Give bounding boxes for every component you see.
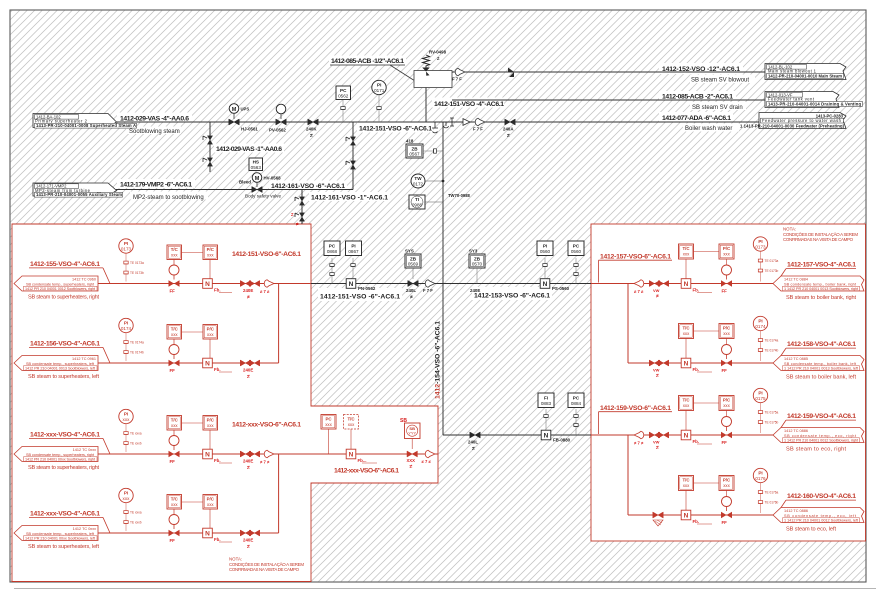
svg-text:T/C: T/C [682,398,690,403]
pipe label 1412-xxx-VSO-4&quot;-AC6.1 [28,511,110,551]
svg-text:TE 0175b: TE 0175b [765,421,779,425]
banner destination R1 [773,276,864,291]
isolation valve pair R1 [649,281,668,300]
svg-text:0884: 0884 [571,401,582,406]
svg-text:1412-151-VSO -4"-AC6.1: 1412-151-VSO -4"-AC6.1 [434,101,504,108]
svg-text:Bleed: Bleed [239,180,251,185]
svg-text:VW: VW [653,368,660,373]
svg-text:≠: ≠ [410,295,413,301]
svg-text:1 1412 PR 210 04001 0013 Sootb: 1 1412 PR 210 04001 0013 Sootblowers, le… [784,367,859,371]
inline flag valve on blowout line [508,68,514,78]
svg-text:TE 0176b: TE 0176b [765,501,779,505]
svg-text:PS-0560: PS-0560 [552,286,570,291]
svg-text:Fb.: Fb. [214,367,221,372]
pipe label 1412-xxx-VSO-4&quot;-AC6.1 [28,432,110,472]
svg-text:≠: ≠ [656,373,659,379]
svg-text:SB steam to superheaters, left: SB steam to superheaters, left [28,544,99,550]
banner source L1 [14,276,98,291]
svg-text:1412-160-VSO-4"-AC6.1: 1412-160-VSO-4"-AC6.1 [787,493,856,500]
svg-text:NOTA:: NOTA: [783,227,796,232]
wire: pipe line L1 [98,283,311,285]
svg-text:1412 TC 0xxx: 1412 TC 0xxx [73,527,96,531]
svg-text:PI: PI [543,243,547,248]
svg-text:xxx: xxx [683,331,690,336]
wire: VSO-1 branch at x302 [301,190,303,225]
isolation double valve L1 [240,281,259,301]
pipe label 1412-157-VSO-6&quot;-AC6.1 [599,253,673,282]
svg-text:0172: 0172 [413,181,424,186]
svg-text:P/C: P/C [207,418,215,423]
wire: pipe line L2 [98,362,279,364]
gate valve 240L on header [406,281,418,301]
motor valve HV-0568 [239,173,281,199]
instrument T/C xxx [167,495,182,510]
svg-text:Feedwater pressure to water wa: Feedwater pressure to water wash [762,118,842,123]
svg-text:T/C: T/C [347,417,355,422]
svg-text:xxx: xxx [683,252,690,257]
control valve FF L3 [169,430,180,464]
svg-text:SY3: SY3 [469,249,478,254]
control valve FF R1 [721,265,732,294]
banner destination R4 [773,508,864,523]
svg-text:FF: FF [170,459,176,464]
svg-text:TE 0176a: TE 0176a [765,491,779,495]
end banner 1412-BL-102 Main Steam [765,64,846,80]
svg-text:F 7 F: F 7 F [452,77,462,82]
svg-text:≠ 7 ≠: ≠ 7 ≠ [634,289,644,294]
svg-text:xxx: xxx [207,423,214,428]
svg-text:F 7 F: F 7 F [423,288,433,293]
svg-text:P/C: P/C [207,247,215,252]
svg-text:SB condensate temp., superheat: SB condensate temp., superheaters, right [26,282,95,286]
wire: pipe line R4 [628,514,775,516]
svg-text:SB condensate temp., eco, left: SB condensate temp., eco, left [784,514,857,518]
svg-text:Fb.: Fb. [693,519,700,524]
control valve FF L4 [169,509,180,543]
svg-text:xxx: xxx [683,403,690,408]
svg-text:1412 PR 210 04001 0012 Sootblo: 1412 PR 210 04001 0012 Sootblowers, righ… [25,287,96,291]
svg-text:CONFIRMADAS NA VISITA DE CAMPO: CONFIRMADAS NA VISITA DE CAMPO [229,567,300,572]
instrument PI-0560 [537,241,553,278]
svg-text:1412-179-VMP2 -6"-AC6.1: 1412-179-VMP2 -6"-AC6.1 [120,182,192,189]
branch gate valves VSO-1 [291,197,305,227]
svg-text:0173: 0173 [755,245,766,250]
inline N box L2 [203,358,232,372]
svg-text:PC: PC [573,395,580,400]
svg-text:PI: PI [758,471,762,476]
svg-text:0868: 0868 [327,249,338,254]
svg-text:PC: PC [329,243,336,248]
instrument P/C xxx [182,416,218,450]
svg-text:1412 TC 0886: 1412 TC 0886 [784,429,808,433]
instrument PI 0173 [119,239,144,282]
instrument PI 0174 [119,318,144,361]
svg-text:≠ 7 ≠: ≠ 7 ≠ [422,459,432,464]
instrument T/C xxx [167,416,182,431]
source banner 1412-BA-102 [33,114,137,129]
svg-text:T/C: T/C [171,497,179,502]
svg-text:0567: 0567 [409,152,420,157]
svg-text:≠: ≠ [247,374,250,380]
svg-text:Boiler wash water: Boiler wash water [685,126,732,132]
svg-text:1412-xxx-VSO-4"-AC6.1: 1412-xxx-VSO-4"-AC6.1 [30,511,100,518]
svg-text:FF: FF [722,289,728,294]
instrument PI 0173 R1 [753,237,778,282]
svg-text:xxx: xxx [171,423,178,428]
pipe label 1412-156-VSO-4&quot;-AC6.1 [28,341,110,381]
label background patches (white) [117,56,755,302]
svg-text:1412-157-VSO-6"-AC6.1: 1412-157-VSO-6"-AC6.1 [600,253,671,260]
svg-text:P/C: P/C [207,327,215,332]
svg-text:TE 0174b: TE 0174b [765,349,779,353]
svg-text:TE 0173b: TE 0173b [765,269,779,273]
control valve FF L2 [169,339,180,373]
control valve FF L1 [169,260,180,294]
svg-text:240K: 240K [306,126,317,131]
svg-text:PI: PI [124,412,128,417]
pipe label 1412-157-VSO-4&quot;-AC6.1 [776,262,856,284]
svg-text:0174: 0174 [755,324,766,329]
instrument P/C R4 [694,476,735,498]
svg-text:1412 PR 210 04001 0013 Sootblo: 1412 PR 210 04001 0013 Sootblowers, left [25,367,96,371]
svg-text:MP2-steam to sootblowing: MP2-steam to sootblowing [133,195,204,201]
svg-text:YYY: YYY [408,430,416,435]
relief valve body [422,68,430,76]
instrument PI-0171 [372,80,386,122]
svg-text:1412-161-VSO -6"-AC6.1: 1412-161-VSO -6"-AC6.1 [271,183,345,190]
svg-text:PV-0562: PV-0562 [269,127,286,132]
isolation double valve L3 [240,451,259,471]
svg-text:0176: 0176 [755,476,766,481]
svg-text:≠ 7 ≠: ≠ 7 ≠ [634,441,644,446]
svg-text:SB condensate temp., boiler ba: SB condensate temp., boiler bank, right [784,282,857,286]
isolation double valve L2 [240,360,259,380]
relief valve RV spring [423,55,430,70]
svg-text:Fb.: Fb. [693,367,700,372]
flange arrow L1 [264,280,274,288]
svg-text:TE 0174b: TE 0174b [130,351,144,355]
svg-text:PN-0562: PN-0562 [358,286,376,291]
instrument T/C R1 [679,244,694,279]
svg-text:FF: FF [722,520,728,525]
svg-text:SYS: SYS [405,249,414,254]
instrument HS-0563 [249,158,263,171]
band inline N box [346,449,377,463]
svg-text:SB condensate temp., boiler ba: SB condensate temp., boiler bank, left [784,362,857,366]
svg-text:xxx: xxx [123,417,131,422]
instrument PI-0867 [346,241,362,278]
svg-text:T/C: T/C [171,247,179,252]
branch gate valve pair VAS-1 [203,136,213,166]
svg-text:0173: 0173 [121,247,132,252]
svg-text:xxx: xxx [171,502,178,507]
instrument PI 0176 R4 [753,468,778,513]
instrument TI-0988 [409,195,443,209]
svg-text:1412-xxx-VSO-6"-AC6.1: 1412-xxx-VSO-6"-AC6.1 [232,422,301,429]
svg-text:240L: 240L [406,288,416,293]
svg-text:SB steam to superheaters, righ: SB steam to superheaters, right [28,295,99,301]
svg-text:xxx: xxx [171,252,178,257]
svg-text:240A: 240A [503,126,514,131]
band SB valve [407,451,418,470]
svg-text:PC: PC [573,243,580,248]
svg-text:VW: VW [653,288,660,293]
svg-text:T/C: T/C [682,246,690,251]
instrument FI-0883 [538,393,554,430]
svg-text:RV-0498: RV-0498 [429,50,447,55]
svg-text:HV-0568: HV-0568 [264,176,282,181]
svg-text:0560: 0560 [571,249,582,254]
svg-text:≠: ≠ [472,446,475,452]
svg-text:1 1412 PR 210 04001 0012 Sootb: 1 1412 PR 210 04001 0012 Sootblowers, ri… [784,439,859,443]
svg-text:1412-085-ACB -2"-AC6.1: 1412-085-ACB -2"-AC6.1 [662,93,733,100]
svg-text:PI: PI [758,319,762,324]
instrument P/C R2 [694,324,735,346]
svg-text:1412-xxx-VSO-4"-AC6.1: 1412-xxx-VSO-4"-AC6.1 [30,432,100,439]
svg-text:xxx: xxx [723,483,730,488]
instrument PI 0175 R3 [753,388,778,433]
svg-text:T/C: T/C [682,326,690,331]
wire: VAS-1 branch at x210 [209,122,211,172]
svg-text:PC: PC [325,417,332,422]
wire: 1412-154 vertical main riser [442,122,444,435]
svg-text:1412 TC 0xxx: 1412 TC 0xxx [73,448,96,452]
svg-text:xxx: xxx [171,332,178,337]
svg-text:M: M [255,176,260,182]
instrument P/C R1 [694,244,735,266]
banner destination R3 [773,428,864,443]
svg-text:PI: PI [124,321,128,326]
steam trap at x435 [432,122,438,133]
svg-text:SB condensate temp., superheat: SB condensate temp., superheaters, left [26,362,95,366]
instrument P/C xxx [182,245,218,279]
wire: red header riser L1 [278,284,280,364]
instrument P/C xxx [182,325,218,359]
svg-text:FF: FF [722,440,728,445]
isolation double valve L4 [240,530,259,550]
svg-text:Fb.: Fb. [214,458,221,463]
svg-text:PI: PI [351,243,355,248]
inline N box PS-0560 [540,279,569,291]
svg-text:1413-PR-210-04001-0055 Auxilia: 1413-PR-210-04001-0055 Auxiliary Steam [36,192,122,197]
spectacle blind x452 [450,118,454,126]
svg-text:xxx: xxx [207,332,214,337]
instrument P/C R3 [694,396,735,418]
svg-text:PI: PI [124,241,128,246]
svg-text:240E: 240E [243,459,253,464]
svg-text:xxx: xxx [348,422,355,427]
inline N box L4 [203,528,232,542]
svg-text:xxx: xxx [723,252,730,257]
svg-text:xxx: xxx [723,403,730,408]
svg-text:SB steam SV drain: SB steam SV drain [692,105,743,111]
svg-text:0563: 0563 [251,165,262,170]
svg-text:SB steam to superheaters, left: SB steam to superheaters, left [28,374,99,380]
svg-text:HJ-0561: HJ-0561 [241,126,258,131]
svg-text:1412-159-VSO-6"-AC6.1: 1412-159-VSO-6"-AC6.1 [600,405,671,412]
svg-text:1412-153-VSO -6"-AC6.1: 1412-153-VSO -6"-AC6.1 [474,293,550,300]
svg-text:M: M [232,107,237,113]
svg-text:240L: 240L [468,440,478,445]
wire: lower 154 horizontal run to right box [443,434,591,436]
svg-text:SB steam to boiler bank, left: SB steam to boiler bank, left [786,374,856,380]
svg-text:1412-077-ADA -6"-AC6.1: 1412-077-ADA -6"-AC6.1 [662,115,731,122]
pipe label 1412-159-VSO-4&quot;-AC6.1 [776,413,856,435]
svg-text:TE 0173a: TE 0173a [765,259,779,263]
svg-text:PI: PI [124,491,128,496]
svg-text:Fb.: Fb. [214,537,221,542]
svg-text:1412-xxx-VSO-6"-AC6.1: 1412-xxx-VSO-6"-AC6.1 [334,468,399,475]
instrument P/C xxx [182,495,218,529]
svg-text:SB steam SV blowout: SB steam SV blowout [691,77,749,83]
svg-text:TE 0175a: TE 0175a [765,411,779,415]
svg-text:SB condensate temp., superheat: SB condensate temp., superheaters, left [26,532,95,536]
svg-text:PC: PC [340,88,347,93]
svg-text:0867: 0867 [348,249,359,254]
svg-text:1412 TC 0884: 1412 TC 0884 [784,277,808,281]
isolation valve pair R4 [653,512,663,526]
instrument ZB-0569 with SYS tag [405,249,421,280]
svg-text:P/C: P/C [207,497,215,502]
svg-text:TE 0173b: TE 0173b [130,271,144,275]
svg-text:1412-156-VSO-4"-AC6.1: 1412-156-VSO-4"-AC6.1 [30,341,100,348]
inline N box L1 [203,279,232,293]
flange arrow on wash line [475,118,485,126]
instrument PC-0868 [324,241,340,284]
instrument PI xxx [119,409,142,452]
svg-text:NOTA:: NOTA: [229,557,242,562]
end banner 1412-013-VF Draining & Venting [765,92,863,108]
svg-text:Fb.: Fb. [214,288,221,293]
control valve FF R2 [721,345,732,374]
svg-text:1412-151-VSO-6"-AC6.1: 1412-151-VSO-6"-AC6.1 [232,251,301,258]
wire: red header riser L3 [278,454,280,533]
branch gate valve pair x353 [346,137,356,169]
svg-text:SB steam to boiler bank, right: SB steam to boiler bank, right [786,295,856,301]
isolation valve pair R2 [649,360,668,379]
svg-text:≠: ≠ [656,445,659,451]
svg-text:TI: TI [415,197,419,202]
svg-text:xxx: xxx [207,502,214,507]
svg-text:0570: 0570 [472,262,483,267]
svg-text:P/C: P/C [723,398,731,403]
instrument T/C R2 [679,324,694,359]
svg-text:1412-161-VSO -1"-AC6.1: 1412-161-VSO -1"-AC6.1 [311,195,388,202]
wire: pipe line R2 [628,362,775,364]
instrument T/C R4 [679,476,694,511]
banner source L3 [14,447,98,462]
svg-text:240E: 240E [243,538,253,543]
gate valve 240L lower run [468,432,480,452]
svg-text:TE 0173a: TE 0173a [130,261,144,265]
svg-text:1412-029-VAS -1"-AA0.6: 1412-029-VAS -1"-AA0.6 [216,146,282,153]
svg-text:FI: FI [544,395,548,400]
svg-text:FF: FF [170,538,176,543]
svg-text:1412-151-VSO -6"-AC6.1: 1412-151-VSO -6"-AC6.1 [320,294,400,301]
svg-text:1412-158-VSO-4"-AC6.1: 1412-158-VSO-4"-AC6.1 [787,341,856,348]
svg-text:P/C: P/C [723,326,731,331]
svg-text:xxx: xxx [207,252,214,257]
wire: red riser R1 [627,284,629,364]
drip leg symbol x445 [444,122,449,128]
svg-text:240E: 240E [243,288,253,293]
svg-text:1413-PR-210-04001-0014 Drainin: 1413-PR-210-04001-0014 Draining & Ventin… [768,101,861,106]
svg-text:1412 TC 0961: 1412 TC 0961 [72,357,96,361]
svg-text:≠: ≠ [410,464,413,470]
svg-text:240E: 240E [243,368,253,373]
battery-limit white region left (red border) [12,224,438,582]
svg-text:TE xxxa: TE xxxa [130,511,142,515]
wire: red riser R3 [627,435,629,515]
band flange arrow [425,450,435,458]
svg-text:xxx: xxx [123,496,131,501]
svg-text:TE xxxb: TE xxxb [130,442,142,446]
svg-text:1412-029-VAS -4"-AA0.6: 1412-029-VAS -4"-AA0.6 [120,115,189,122]
svg-text:F 7 F: F 7 F [473,127,483,132]
wire: MP2 steam line [116,189,353,191]
svg-text:1413-PR-210-04001-0008 Superhe: 1413-PR-210-04001-0008 Superheated Steam… [36,123,136,128]
svg-text:1412 TC 0960: 1412 TC 0960 [72,277,96,281]
instrument PI xxx [119,488,142,531]
svg-text:1412-PR-210-04001-0010 Main St: 1412-PR-210-04001-0010 Main Steam [768,73,842,78]
svg-text:XXX: XXX [407,458,416,463]
svg-text:0171: 0171 [374,88,385,93]
svg-text:TE 0174a: TE 0174a [765,339,779,343]
sheet edge line bottom [14,588,876,590]
svg-text:CONDIÇÕES DE INSTALAÇÃO A SERE: CONDIÇÕES DE INSTALAÇÃO A SEREM [229,562,304,567]
svg-text:P/C: P/C [723,478,731,483]
isolation valve pair R3 [649,432,668,451]
band instrument TC [344,415,359,450]
gate valve 240A on wash line [503,119,515,139]
flange arrow on header [425,280,435,288]
svg-text:1 1412 PR 210 04001 0013 Sootb: 1 1412 PR 210 04001 0013 Sootblowers, ri… [784,287,859,291]
svg-text:≠: ≠ [247,465,250,471]
battery-limit white region right (red border) [591,224,866,541]
wire: pipe line R3 [591,434,775,436]
banner source L2 [14,356,98,371]
inline N box R2 [681,358,712,372]
control valve FF R3 [721,417,732,446]
svg-text:VW: VW [653,440,660,445]
pipe label 1412-158-VSO-4&quot;-AC6.1 [776,341,856,363]
wire: pipe line L3 [98,453,438,455]
instrument PC-0562 [336,86,351,122]
svg-text:1 1413-PR-210-04001-0030 Feedw: 1 1413-PR-210-04001-0030 Feedwater (Preh… [740,123,845,128]
svg-text:SB steam to superheaters, righ: SB steam to superheaters, right [28,465,99,471]
instrument T/C R3 [679,396,694,431]
svg-text:1412-155-VSO-4"-AC6.1: 1412-155-VSO-4"-AC6.1 [30,261,100,268]
svg-text:1412 PR 210 04001 00xx Sootblo: 1412 PR 210 04001 00xx Sootblowers, left [25,537,96,541]
relief valve assembly box [414,71,452,88]
svg-text:CONDIÇÕES DE INSTALAÇÃO A SERE: CONDIÇÕES DE INSTALAÇÃO A SEREM [783,232,858,237]
wire: SV blowout line [436,71,766,73]
svg-text:1412-152-VSO -12"-AC6.1: 1412-152-VSO -12"-AC6.1 [662,66,740,73]
banner source L4 [14,526,98,541]
svg-text:0988: 0988 [412,202,423,207]
banner destination R2 [773,356,864,371]
wire: pipe line L4 [98,532,279,534]
flange arrow R1 [634,280,644,288]
svg-text:SB steam to eco, left: SB steam to eco, left [786,526,836,532]
vertical pipe label 1412-154-VSO-6 [435,321,442,399]
svg-text:SB condensate temp., superheat: SB condensate temp., superheaters, right [26,453,95,457]
svg-text:CONFIRMADAS NA VISITA DE CAMPO: CONFIRMADAS NA VISITA DE CAMPO [783,237,854,242]
svg-text:≠: ≠ [247,295,250,301]
svg-text:418: 418 [406,139,414,144]
inline N box R1 [681,279,712,293]
svg-text:1412 PR 210 04001 00xx Sootblo: 1412 PR 210 04001 00xx Sootblowers, righ… [25,458,96,462]
